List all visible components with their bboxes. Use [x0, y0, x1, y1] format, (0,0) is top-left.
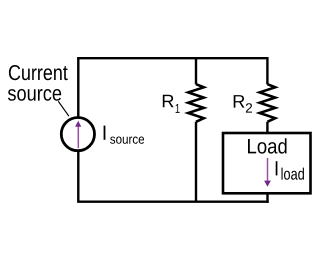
wire: Load box bottom connector to bottom rail: [266, 193, 268, 203]
resistor R1: [188, 84, 204, 122]
leader line from 'Current source' label to circle: [58, 101, 69, 116]
wire: bottom rail from source bottom to load connector: [78, 151, 268, 202]
load arrow (shaft): [267, 158, 269, 181]
resistor R2: [260, 84, 276, 122]
current source circle: [61, 118, 94, 151]
load arrow (head): [264, 181, 271, 187]
label: I source (I): [104, 126, 106, 140]
current source arrow (head): [75, 121, 81, 127]
label: I source (subscript): [110, 137, 144, 144]
load box: [223, 133, 311, 193]
label: Load: [248, 138, 287, 153]
wire: top rail from source top-left corner to R2 top corner: [78, 58, 267, 117]
wire: R1 bottom lead down to bottom rail: [195, 122, 197, 202]
label: R2 (R): [234, 95, 245, 108]
label: R2 (subscript 2): [246, 103, 252, 112]
label: Current source (line 2): [8, 89, 61, 101]
wire: R1 top lead (junction at top rail): [195, 58, 197, 84]
label: R1 (R): [163, 95, 174, 108]
label: I load (subscript): [282, 168, 305, 180]
label: I load (I): [276, 161, 278, 175]
label: Current source (line 1): [9, 65, 68, 80]
label: R1 (subscript 1): [176, 104, 180, 113]
wire: R2 bottom lead into Load box top: [266, 122, 268, 133]
current source arrow (shaft): [77, 126, 79, 148]
